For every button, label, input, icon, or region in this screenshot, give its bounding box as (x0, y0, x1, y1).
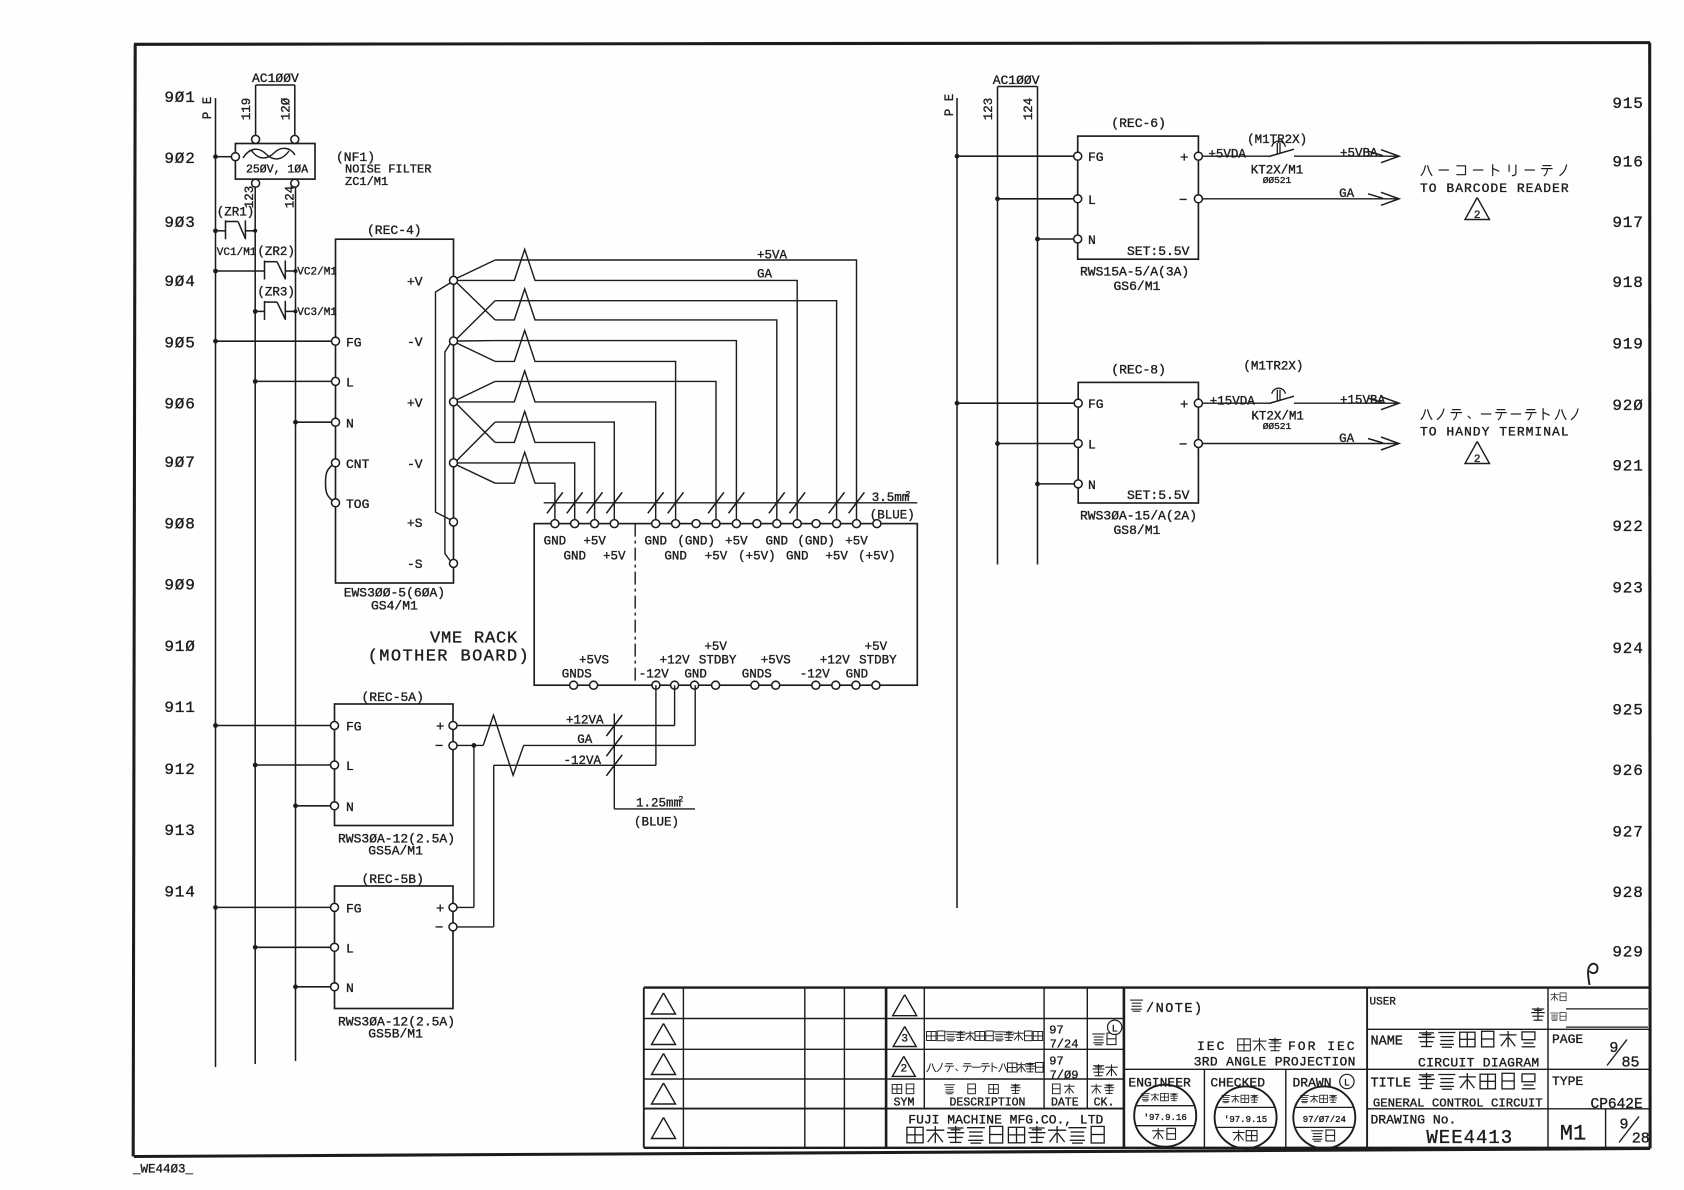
svg-text:VME RACK: VME RACK (430, 630, 518, 649)
svg-text:N: N (346, 416, 354, 431)
svg-text:912: 912 (164, 761, 195, 779)
svg-text:-12VA: -12VA (564, 754, 602, 768)
svg-text:GENERAL CONTROL CIRCUIT: GENERAL CONTROL CIRCUIT (1373, 1097, 1543, 1111)
svg-text:124: 124 (284, 186, 298, 209)
svg-text:(MOTHER BOARD): (MOTHER BOARD) (368, 648, 530, 667)
svg-text:GND: GND (846, 668, 869, 682)
svg-text:119: 119 (240, 98, 254, 121)
svg-text:9Ø2: 9Ø2 (164, 150, 195, 168)
svg-text:L: L (1088, 438, 1096, 453)
svg-text:AC1ØØV: AC1ØØV (252, 71, 299, 86)
svg-text:CP642E: CP642E (1591, 1097, 1643, 1113)
svg-text:9: 9 (1609, 1040, 1618, 1057)
svg-text:913: 913 (164, 822, 195, 840)
svg-text:−: − (1179, 193, 1187, 209)
svg-text:3.5mm: 3.5mm (872, 491, 910, 505)
svg-text:9Ø5: 9Ø5 (164, 334, 195, 352)
svg-text:FG: FG (346, 720, 362, 735)
svg-text:ZC1/M1: ZC1/M1 (345, 175, 388, 189)
svg-text:SET:5.5V: SET:5.5V (1127, 488, 1190, 503)
svg-text:923: 923 (1612, 579, 1643, 597)
svg-text:1.25mm: 1.25mm (636, 797, 681, 811)
svg-text:(ZR2): (ZR2) (257, 245, 295, 259)
svg-text:919: 919 (1612, 335, 1643, 353)
svg-text:+: + (436, 901, 444, 917)
svg-text:−: − (435, 739, 443, 755)
svg-text:28: 28 (1632, 1131, 1650, 1148)
svg-text:+5V: +5V (603, 550, 626, 564)
svg-text:(+5V): (+5V) (738, 550, 776, 564)
svg-text:IEC: IEC (1197, 1039, 1226, 1054)
svg-text:+5VS: +5VS (579, 654, 609, 668)
svg-text:+5V: +5V (704, 640, 727, 654)
svg-text:NAME: NAME (1371, 1035, 1403, 1050)
svg-text:+15VDA: +15VDA (1210, 394, 1256, 408)
svg-text:9Ø6: 9Ø6 (164, 396, 195, 414)
svg-text:2: 2 (1474, 454, 1481, 466)
svg-text:+V: +V (407, 275, 423, 290)
svg-text:925: 925 (1612, 702, 1643, 720)
svg-text:USER: USER (1370, 997, 1397, 1009)
svg-text:(REC-8): (REC-8) (1111, 362, 1166, 377)
svg-text:2: 2 (906, 491, 911, 500)
svg-text:(REC-5A): (REC-5A) (362, 690, 424, 705)
svg-text:+12V: +12V (820, 654, 851, 668)
svg-text:(+5V): (+5V) (858, 550, 896, 564)
svg-text:928: 928 (1612, 884, 1643, 902)
svg-text:GS5B/M1: GS5B/M1 (368, 1027, 423, 1042)
svg-text:915: 915 (1612, 95, 1643, 113)
svg-text:L: L (1088, 193, 1096, 208)
svg-text:+5VBA: +5VBA (1340, 146, 1378, 160)
svg-text:+S: +S (407, 516, 423, 531)
svg-text:(BLUE): (BLUE) (634, 816, 679, 830)
svg-text:9Ø3: 9Ø3 (164, 214, 195, 232)
svg-text:+5V: +5V (825, 550, 848, 564)
svg-text:TITLE: TITLE (1371, 1077, 1412, 1092)
svg-text:M1: M1 (1560, 1122, 1586, 1147)
svg-text:SYM: SYM (894, 1097, 915, 1110)
svg-text:(M1TR2X): (M1TR2X) (1247, 133, 1307, 147)
svg-text:DESCRIPTION: DESCRIPTION (950, 1097, 1026, 1110)
svg-text:WEE4413: WEE4413 (1426, 1127, 1513, 1149)
svg-text:P E: P E (943, 94, 957, 117)
svg-text:924: 924 (1612, 640, 1643, 658)
svg-text:2: 2 (679, 796, 684, 805)
svg-text:+5VA: +5VA (757, 249, 788, 263)
svg-text:FOR IEC: FOR IEC (1288, 1039, 1357, 1054)
svg-text:(ZR1): (ZR1) (217, 206, 255, 220)
svg-text:917: 917 (1612, 214, 1643, 232)
svg-text:CIRCUIT DIAGRAM: CIRCUIT DIAGRAM (1418, 1056, 1540, 1071)
svg-text:DATE: DATE (1051, 1097, 1079, 1110)
svg-text:+: + (1180, 398, 1188, 414)
svg-text:7/24: 7/24 (1050, 1038, 1079, 1052)
svg-text:922: 922 (1612, 518, 1643, 536)
svg-text:85: 85 (1621, 1055, 1639, 1072)
svg-text:N: N (346, 981, 354, 996)
svg-text:GS8/M1: GS8/M1 (1114, 523, 1161, 538)
svg-text:N: N (1088, 233, 1096, 248)
svg-text:+5V: +5V (865, 640, 888, 654)
svg-text:'97.9.15: '97.9.15 (1224, 1115, 1267, 1125)
svg-text:97: 97 (1049, 1024, 1063, 1038)
svg-text:_WE44Ø3_: _WE44Ø3_ (132, 1163, 194, 1177)
svg-text:GA: GA (577, 733, 593, 747)
svg-text:+: + (436, 720, 444, 736)
svg-text:-V: -V (407, 457, 423, 472)
svg-text:SET:5.5V: SET:5.5V (1127, 244, 1190, 259)
svg-text:GS5A/M1: GS5A/M1 (368, 844, 423, 859)
svg-text:92Ø: 92Ø (1612, 397, 1643, 415)
svg-text:TYPE: TYPE (1552, 1074, 1583, 1089)
svg-text:+12VA: +12VA (566, 714, 604, 728)
svg-text:FG: FG (346, 901, 362, 916)
svg-text:L: L (1344, 1079, 1350, 1090)
svg-text:RWS15A-5/A(3A): RWS15A-5/A(3A) (1080, 265, 1189, 280)
svg-text:927: 927 (1612, 824, 1643, 842)
svg-text:CK.: CK. (1094, 1097, 1115, 1110)
svg-text:-S: -S (407, 557, 423, 572)
svg-text:9Ø9: 9Ø9 (164, 577, 195, 595)
svg-text:916: 916 (1612, 154, 1643, 172)
svg-text:VC2/M1: VC2/M1 (297, 267, 337, 279)
svg-text:L: L (1112, 1024, 1118, 1035)
svg-text:ØØ521: ØØ521 (1263, 175, 1292, 186)
svg-text:(GND): (GND) (677, 535, 715, 549)
svg-text:N: N (1088, 478, 1096, 493)
svg-text:-12V: -12V (639, 668, 670, 682)
svg-text:FG: FG (1088, 397, 1104, 412)
svg-text:+15VBA: +15VBA (1340, 393, 1386, 407)
svg-text:123: 123 (982, 98, 996, 121)
svg-text:914: 914 (164, 883, 195, 901)
svg-text:(M1TR2X): (M1TR2X) (1243, 360, 1303, 374)
svg-text:RWS3ØA-15/A(2A): RWS3ØA-15/A(2A) (1080, 509, 1197, 524)
svg-text:+V: +V (407, 396, 423, 411)
svg-text:PAGE: PAGE (1552, 1032, 1583, 1047)
svg-text:ENGINEER: ENGINEER (1128, 1076, 1191, 1091)
svg-text:GND: GND (664, 550, 687, 564)
svg-text:+5VS: +5VS (761, 654, 791, 668)
svg-text:-V: -V (407, 335, 423, 350)
svg-text:7/Ø9: 7/Ø9 (1050, 1069, 1079, 1083)
svg-text:+5V: +5V (705, 550, 728, 564)
svg-text:N: N (346, 800, 354, 815)
svg-text:(REC-6): (REC-6) (1111, 116, 1166, 131)
svg-text:+5V: +5V (845, 535, 868, 549)
svg-text:TOG: TOG (346, 497, 369, 512)
svg-text:97/Ø7/24: 97/Ø7/24 (1303, 1115, 1346, 1125)
svg-text:12Ø: 12Ø (280, 97, 294, 120)
svg-text:(ZR3): (ZR3) (257, 286, 295, 300)
svg-text:GND: GND (563, 550, 586, 564)
svg-text:GND: GND (766, 535, 789, 549)
svg-text:GA: GA (757, 268, 773, 282)
svg-text:ØØ521: ØØ521 (1263, 421, 1292, 432)
svg-text:TO HANDY TERMINAL: TO HANDY TERMINAL (1420, 424, 1570, 439)
svg-text:3: 3 (901, 1034, 908, 1046)
svg-text:GND: GND (644, 535, 667, 549)
svg-text:L: L (346, 376, 354, 391)
svg-text:STDBY: STDBY (859, 654, 897, 668)
svg-text:91Ø: 91Ø (164, 638, 195, 656)
svg-text:2: 2 (900, 1064, 907, 1076)
svg-text:STDBY: STDBY (699, 654, 737, 668)
svg-text:9Ø4: 9Ø4 (164, 273, 195, 291)
svg-text:3RD ANGLE PROJECTION: 3RD ANGLE PROJECTION (1194, 1055, 1356, 1070)
svg-text:GNDS: GNDS (562, 668, 592, 682)
svg-text:911: 911 (164, 699, 195, 717)
svg-text:DRAWING No.: DRAWING No. (1371, 1113, 1457, 1128)
svg-text:GS4/M1: GS4/M1 (371, 599, 418, 614)
svg-text:−: − (435, 920, 443, 936)
svg-text:/NOTE): /NOTE) (1146, 1002, 1204, 1017)
svg-text:2: 2 (1474, 210, 1481, 222)
svg-text:926: 926 (1612, 762, 1643, 780)
svg-text:(BLUE): (BLUE) (870, 509, 915, 523)
svg-text:(GND): (GND) (797, 535, 835, 549)
svg-text:+12V: +12V (660, 654, 691, 668)
svg-text:929: 929 (1612, 944, 1643, 962)
svg-text:124: 124 (1022, 98, 1036, 121)
svg-text:L: L (346, 759, 354, 774)
svg-text:+5V: +5V (725, 535, 748, 549)
svg-text:GNDS: GNDS (742, 668, 772, 682)
svg-text:+5V: +5V (583, 535, 606, 549)
svg-text:9Ø1: 9Ø1 (164, 89, 195, 107)
svg-text:FUJI MACHINE MFG.CO., LTD: FUJI MACHINE MFG.CO., LTD (908, 1113, 1103, 1128)
svg-text:25ØV, 1ØA: 25ØV, 1ØA (246, 164, 308, 177)
svg-text:(REC-5B): (REC-5B) (362, 872, 424, 887)
svg-text:GND: GND (786, 550, 809, 564)
svg-text:VC1/M1: VC1/M1 (217, 247, 257, 259)
svg-text:918: 918 (1612, 274, 1643, 292)
svg-text:TO BARCODE READER: TO BARCODE READER (1420, 181, 1570, 196)
svg-text:+5VDA: +5VDA (1208, 147, 1246, 161)
svg-text:−: − (1179, 438, 1187, 454)
svg-text:9Ø8: 9Ø8 (164, 516, 195, 534)
svg-text:FG: FG (346, 335, 362, 350)
svg-text:'97.9.16: '97.9.16 (1144, 1113, 1187, 1123)
svg-text:GND: GND (544, 535, 567, 549)
svg-text:CNT: CNT (346, 457, 370, 472)
svg-text:GA: GA (1339, 432, 1355, 446)
svg-text:+: + (1180, 151, 1188, 167)
svg-text:-12V: -12V (800, 668, 831, 682)
svg-text:P E: P E (201, 97, 215, 120)
svg-text:GA: GA (1339, 187, 1355, 201)
svg-text:97: 97 (1049, 1055, 1063, 1069)
svg-text:9Ø7: 9Ø7 (164, 454, 195, 472)
svg-text:GND: GND (684, 668, 707, 682)
svg-text:FG: FG (1088, 150, 1104, 165)
svg-text:L: L (346, 941, 354, 956)
svg-text:(REC-4): (REC-4) (367, 223, 422, 238)
svg-text:GS6/M1: GS6/M1 (1114, 279, 1161, 294)
svg-text:VC3/M1: VC3/M1 (297, 307, 337, 319)
svg-text:921: 921 (1612, 457, 1643, 475)
